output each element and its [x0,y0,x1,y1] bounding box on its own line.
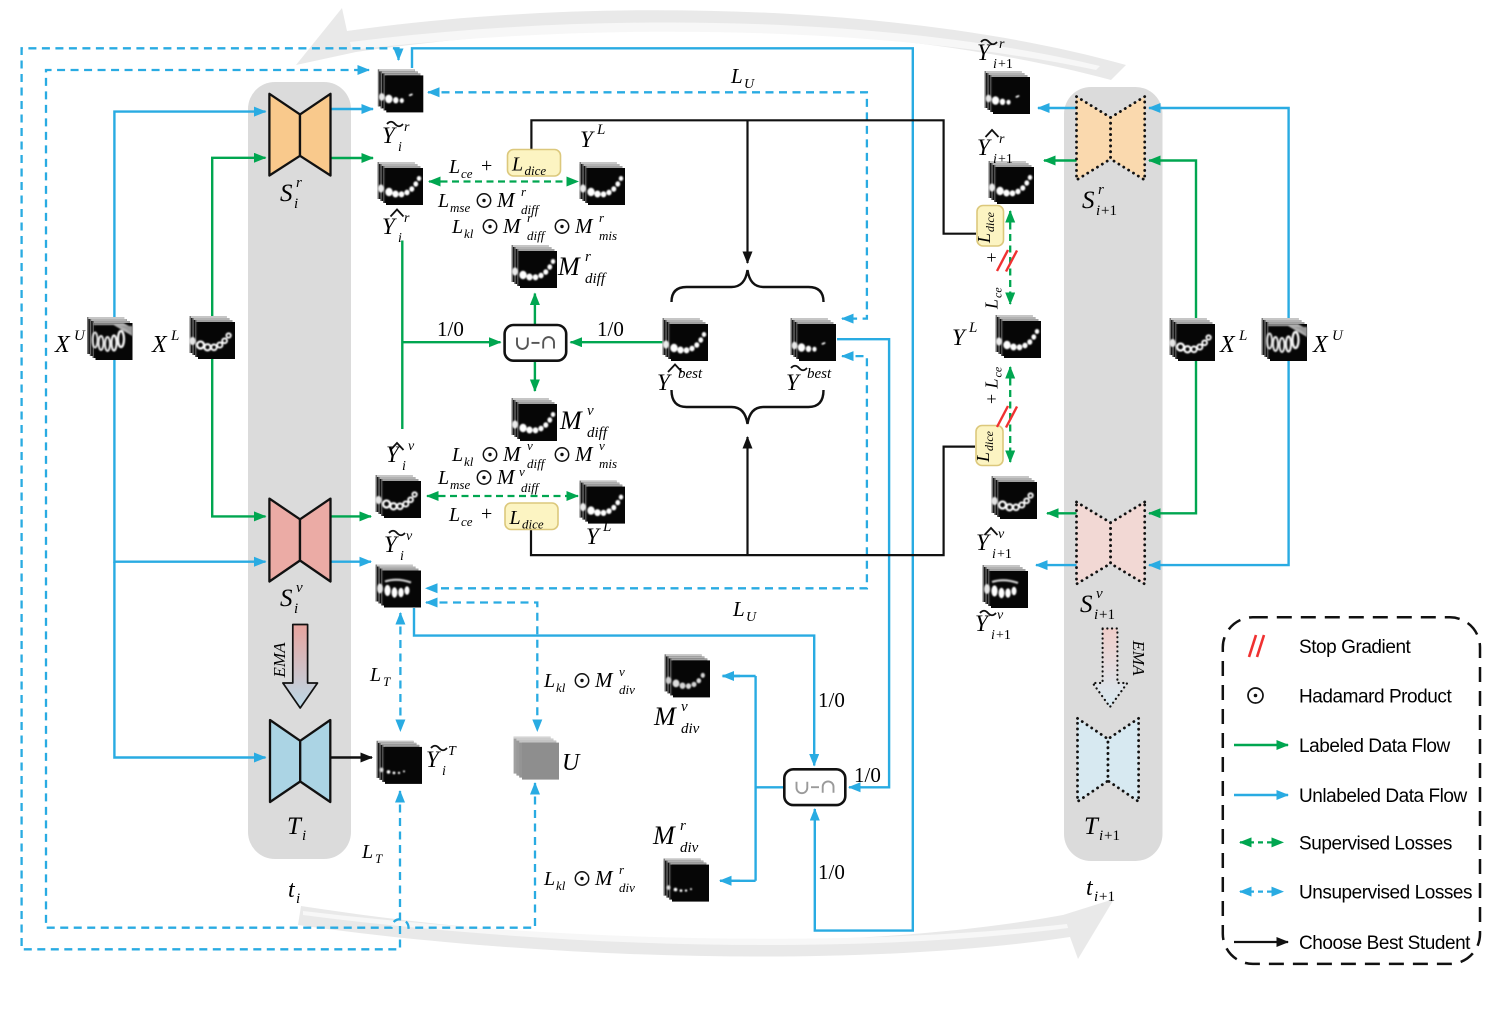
svg-text:Y: Y [384,532,399,557]
svg-text:ce: ce [461,166,473,181]
svg-text:M: M [496,465,516,489]
label Y^_i^v [391,443,404,450]
stack Y~_i^r [378,69,423,112]
stack Y^best [663,318,708,361]
svg-text:diff: diff [521,480,541,495]
svg-text:M: M [594,866,614,890]
svg-text:+1: +1 [1104,828,1120,844]
svg-text:T: T [375,851,383,866]
stack X^U right [1262,318,1307,361]
svg-text:Labeled Data Flow: Labeled Data Flow [1299,736,1451,757]
svg-text:r: r [404,120,410,135]
svg-text:L: L [973,452,993,463]
svg-text:i: i [294,601,298,617]
svg-text:Y: Y [386,442,401,467]
label Y^^r_i+1 [986,130,999,137]
svg-text:U: U [74,328,86,344]
stack X^U left [87,317,132,360]
svg-text:i: i [993,152,997,167]
svg-text:dice: dice [522,517,544,532]
EMA arrow right (dotted) [1093,629,1128,708]
svg-text:U: U [1332,328,1344,344]
svg-text:Y: Y [426,747,441,772]
svg-text:M: M [496,188,516,212]
union box2 [784,769,845,805]
svg-text:+: + [982,394,1002,404]
svg-text:Y: Y [975,611,990,636]
svg-text:i: i [442,764,446,779]
svg-text:S: S [1082,187,1095,214]
stack X^L left [189,316,235,359]
wire blue left: X^U feed to S_i^r, S_i^v, T_i [114,112,265,328]
svg-text:i: i [302,828,306,844]
legend supervised losses [1240,841,1283,843]
svg-text:div: div [680,840,699,856]
svg-text:L: L [361,841,373,863]
svg-text:mse: mse [450,477,470,492]
svg-text:L: L [437,190,449,212]
svg-text:+1: +1 [998,57,1013,72]
label Y~_i^T [431,746,447,751]
svg-text:v: v [519,464,525,479]
wire blue right: X^U to S_i+1^r and S_i+1^v [1149,108,1289,327]
wire black: choose-best top line to right L_dice [531,120,976,233]
svg-text:+1: +1 [1099,889,1115,905]
svg-text:Y: Y [580,127,595,152]
svg-text:kl: kl [556,680,566,695]
svg-text:i: i [993,57,997,72]
stack Y~_i^v [376,565,421,608]
svg-text:mis: mis [599,456,617,471]
svg-text:L: L [596,122,605,138]
svg-text:r: r [585,249,591,265]
svg-text:v: v [296,580,303,596]
stack X^L right [1169,318,1215,361]
svg-text:v: v [997,608,1004,623]
svg-text:L: L [543,868,555,890]
svg-text:Stop Gradient: Stop Gradient [1299,637,1412,658]
svg-text:i: i [1094,889,1098,905]
brace bottom (under best stacks) [672,390,824,424]
svg-text:dice: dice [982,430,996,451]
svg-text:kl: kl [556,878,566,893]
green dashed supervised loss arrows (r branch) [429,180,578,182]
svg-text:i: i [296,891,300,907]
svg-text:L: L [448,156,460,178]
svg-text:i: i [1099,828,1103,844]
svg-text:Y: Y [382,123,397,148]
svg-text:L: L [437,467,449,489]
svg-text:M: M [557,252,581,281]
label Y~_i^r [387,122,403,127]
legend labeled data flow [1234,744,1288,746]
svg-text:Y: Y [586,524,601,549]
arrow into Mv_div [723,675,741,677]
wire green: Y^ri & Y^vi into union box1 [401,241,403,430]
wire green right: X^L to S_i+1^r and S_i+1^v [1149,161,1196,328]
svg-text:v: v [406,529,413,544]
svg-text:dice: dice [983,211,997,232]
svg-text:X: X [1219,332,1236,358]
brace top (over best stacks) [672,270,824,302]
svg-text:L: L [170,328,179,344]
svg-text:L: L [511,154,523,176]
dashed loop D1: teacher LT feedback to Y~r (outer rect) [22,48,400,949]
legend stop gradient [1249,635,1264,657]
wire green: S_i^r out to Y^ri [331,157,374,159]
green dashed supervised loss arrows (v branch) [427,495,578,497]
svg-text:1/0: 1/0 [818,688,845,712]
wire green left: X^L feed to S_i^r, S_i^v [212,158,265,328]
svg-text:Y: Y [382,214,397,239]
svg-text:1/0: 1/0 [597,317,624,341]
wire blue: union box2 output to divergence masks [720,676,784,881]
stop gradient right bottom [997,406,1017,428]
svg-text:1/0: 1/0 [818,860,845,884]
legend unlabeled data flow [1234,794,1288,796]
label Y~^v_i+1 [980,611,996,616]
svg-text:div: div [619,880,635,895]
legend box [1223,617,1480,964]
stop gradient right top [997,250,1017,272]
svg-text:T: T [383,674,391,689]
svg-text:+1: +1 [998,152,1013,167]
svg-text:L: L [451,216,463,238]
gray swoosh arrow top (iteration loop) [296,8,1126,80]
stack Y^^v_i+1 [991,476,1037,519]
svg-text:mse: mse [450,200,470,215]
wire blue: S_i^r out to Y~ri [331,108,374,110]
svg-text:r: r [404,211,410,226]
green dashed supervised loss (right r): Y^r_i+1 to Y^L [1009,211,1011,304]
stack M^r_diff [512,245,557,288]
dashed D5: L_U upper, Y~r to Y~best [428,92,867,318]
svg-text:r: r [1098,182,1104,198]
svg-text:div: div [619,682,635,697]
svg-text:M: M [594,668,614,692]
svg-text:v: v [527,438,533,453]
svg-text:+1: +1 [1101,203,1117,219]
svg-text:Choose Best Student: Choose Best Student [1299,933,1471,954]
svg-text:r: r [999,37,1005,52]
svg-text:i: i [1094,607,1098,623]
wire blue S2: Y~best to union box2 right [837,339,889,787]
svg-text:best: best [678,366,703,382]
svg-text:diff: diff [585,271,607,287]
stack U uncertainty [514,737,559,780]
svg-text:best: best [807,366,832,382]
svg-text:L: L [451,444,463,466]
svg-text:L: L [509,507,521,529]
stack M^v_diff [512,398,557,441]
svg-text:i: i [398,140,402,155]
arrow into Mr_div [720,880,740,882]
wire green: Y^best into union box1 [571,341,663,343]
svg-text:ce: ce [991,287,1005,298]
label Y~_i^v [389,531,405,536]
yellow box L_dice (v branch) [505,503,558,532]
svg-text:X: X [54,332,71,358]
svg-text:Hadamard Product: Hadamard Product [1299,687,1452,708]
svg-text:M: M [574,214,594,238]
svg-text:X: X [151,332,168,358]
svg-text:+1: +1 [997,547,1012,562]
svg-text:+1: +1 [996,628,1011,643]
stack Y^^r_i+1 [989,161,1034,204]
butterfly T_i (blue teacher) [270,720,330,802]
stack Y^_i^r [378,162,423,205]
dashed D6: L_U lower, Y~best to Y~v [426,356,867,588]
svg-text:+: + [481,503,492,525]
svg-text:M: M [574,442,594,466]
svg-text:Y: Y [977,135,992,160]
svg-text:diff: diff [527,456,547,471]
dashed D4: L_T between Y~v and Y~T [399,613,401,731]
svg-text:v: v [681,699,688,715]
label Y^^v_i+1 [985,528,998,535]
svg-text:L: L [448,504,460,526]
wire green: S_i+1^v out to Y^v_i+1 [1047,512,1077,514]
wire blue: S_i^v out to Y~vi [331,561,372,563]
svg-text:v: v [599,438,605,453]
svg-text:EMA: EMA [1129,640,1148,677]
svg-text:Unsupervised Losses: Unsupervised Losses [1299,883,1472,904]
wire black: T_i out to Y~T [330,756,372,758]
union box1 [505,325,567,361]
svg-text:L: L [543,670,555,692]
svg-text:Y: Y [976,530,991,555]
svg-text:1/0: 1/0 [854,763,881,787]
label Y^_i^r [391,210,404,217]
EMA arrow left [283,625,318,709]
stack Y^L right [996,315,1041,358]
svg-text:L: L [974,233,994,244]
svg-text:U: U [562,750,581,776]
svg-text:+: + [481,155,492,177]
svg-text:S: S [1080,591,1093,618]
label Y^best [668,365,682,373]
stack M^v_div [665,654,710,697]
svg-text:M: M [502,214,522,238]
stack M^r_div [664,859,709,902]
dashed loop D2: U-stack feedback to Y~r (inner rect, hop at x=400) [46,70,535,928]
svg-text:r: r [680,818,686,834]
gray swoosh arrow bottom (iteration loop) [298,899,1114,959]
svg-text:T: T [287,813,303,840]
label Y~^r_i+1 [981,40,997,45]
svg-text:+1: +1 [1099,607,1115,623]
svg-text:+: + [982,252,1002,262]
svg-text:M: M [653,702,677,731]
gray column t_i+1 [1064,87,1163,861]
stack Y^L (r branch) [580,162,625,205]
yellow box L_dice right top (vertical) [974,206,1004,247]
svg-text:L: L [982,299,1002,310]
label L_ce + (right top, vertical) [982,252,1005,310]
svg-text:L: L [730,64,743,88]
svg-text:r: r [999,132,1005,147]
wire blue S1: Y~r top to union box2 bottom [412,48,913,930]
svg-text:i: i [402,459,406,474]
svg-text:v: v [998,527,1005,542]
svg-text:kl: kl [464,226,474,241]
label + L_ce (right bottom, vertical) [982,366,1005,404]
svg-text:v: v [619,664,625,679]
butterfly S_i^v (pink student) [269,499,330,582]
svg-text:L: L [968,320,977,336]
yellow box L_dice (r branch) [508,150,561,179]
wire black: arrow into top brace [746,120,748,263]
svg-text:Y: Y [786,370,801,395]
wire black: arrow into bottom brace [746,437,748,555]
svg-text:i: i [991,628,995,643]
svg-text:L: L [602,519,611,535]
wire blue: S_i+1^r out to Y~r_i+1 [1038,107,1077,109]
svg-text:v: v [1096,586,1103,602]
svg-text:X: X [1312,332,1329,358]
svg-text:M: M [502,442,522,466]
wire blue: S_i+1^v out to Y~v_i+1 [1036,564,1077,566]
svg-text:ce: ce [461,514,473,529]
stack Y~^r_i+1 [985,71,1030,114]
stack Y~_i^T [377,741,422,784]
stack Y~^v_i+1 [983,565,1028,608]
wire black: choose-best bottom line to right L_dice [531,447,975,555]
svg-text:U: U [744,77,755,92]
svg-text:U: U [746,610,757,625]
stack Y^L (v branch) [580,481,625,524]
svg-text:diff: diff [527,228,547,243]
svg-text:L: L [369,664,381,686]
svg-text:Y: Y [952,325,967,350]
svg-text:i: i [294,196,298,212]
legend hadamard product [1248,688,1263,703]
svg-text:T: T [1084,813,1100,840]
svg-text:div: div [681,721,700,737]
svg-text:L: L [732,597,745,621]
svg-text:Y: Y [977,40,992,65]
butterfly S_i+1^v (dotted pink) [1077,502,1145,584]
svg-text:i: i [398,231,402,246]
svg-text:T: T [448,744,457,759]
label Y~best [791,366,807,371]
svg-text:v: v [408,439,415,454]
butterfly S_i+1^r (dotted orange) [1077,97,1145,180]
svg-text:i: i [400,549,404,564]
butterfly T_i+1 (dotted blue) [1078,718,1139,801]
green dashed supervised loss (right v): Y^L to Y^v_i+1 [1009,367,1011,462]
svg-text:M: M [559,406,583,435]
svg-text:M: M [652,821,676,850]
svg-text:S: S [280,180,293,207]
svg-text:r: r [296,175,302,191]
wire blue S3: Y~v to union box2 top [414,608,814,766]
svg-text:v: v [587,403,594,419]
svg-text:EMA: EMA [270,642,289,679]
legend choose best student [1234,941,1288,943]
yellow box L_dice right bottom (vertical) [973,426,1003,466]
svg-text:diff: diff [587,425,609,441]
svg-text:L: L [982,378,1002,389]
svg-text:i: i [1096,203,1100,219]
svg-text:i: i [992,547,996,562]
gray column t_i [248,82,351,859]
svg-text:mis: mis [599,228,617,243]
svg-text:1/0: 1/0 [437,317,464,341]
svg-text:L: L [1238,328,1247,344]
svg-text:ce: ce [991,366,1005,377]
svg-text:S: S [280,585,293,612]
stack Y^_i^v [375,475,421,518]
svg-text:Supervised Losses: Supervised Losses [1299,834,1452,855]
svg-text:Y: Y [657,370,672,395]
wire green: S_i+1^r out to Y^r_i+1 [1044,159,1077,161]
wire green: S_i^v out to Y^vi [331,515,372,517]
wire green: union box1 out to Mr_diff and Mv_diff [534,294,536,326]
stack Y~best [791,318,836,361]
dashed D3: Y~v to U-stack [426,603,537,732]
svg-text:dice: dice [525,163,547,178]
butterfly S_i^r (orange student) [269,94,330,176]
svg-text:kl: kl [464,454,474,469]
svg-text:Unlabeled Data Flow: Unlabeled Data Flow [1299,786,1468,807]
legend unsupervised losses [1240,890,1283,892]
